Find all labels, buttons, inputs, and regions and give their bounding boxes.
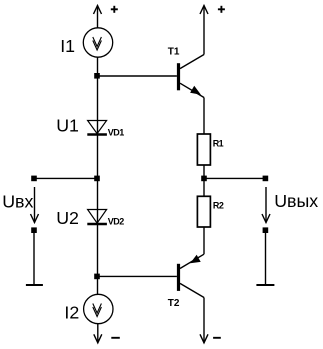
diode VD1 cathode bar	[87, 133, 107, 136]
wire: R1 to node D	[203, 165, 205, 178]
T1 collector diagonal	[180, 55, 204, 69]
transistor T2 base bar	[177, 264, 180, 291]
T2 collector diagonal	[180, 283, 204, 297]
arrowhead down (open) at T2 collector	[200, 334, 208, 343]
arrowhead down (open) input	[31, 214, 39, 223]
label minus (bottom right)	[213, 337, 221, 339]
wire: node A to T1 base	[98, 75, 177, 77]
diode VD2 triangle	[88, 210, 107, 224]
wire: node D to R2	[203, 178, 205, 196]
node A junction dot	[94, 73, 100, 79]
wire: node A down through VD1 to node B	[97, 76, 99, 178]
wire: node B down through VD2 to node C	[97, 178, 99, 276]
T1 emitter diagonal	[180, 83, 204, 97]
node C junction dot	[94, 274, 100, 280]
T1 emitter arrowhead	[191, 87, 200, 94]
T2 emitter diagonal	[180, 254, 204, 268]
label + (top left)	[111, 6, 118, 13]
T2 emitter arrowhead	[191, 256, 200, 263]
wire: node C to T2 base	[98, 275, 177, 277]
wire: T1 collector up to positive rail arrow	[203, 6, 205, 55]
input terminal top dot	[31, 176, 37, 182]
wire: node B to input node	[34, 177, 98, 179]
output terminal end bar	[256, 284, 274, 286]
node B junction dot	[94, 176, 100, 182]
output voltage arrow Uvyx	[265, 187, 267, 223]
svg-text:U1: U1	[56, 116, 79, 136]
wire: T2 collector down to negative rail arrow	[203, 298, 205, 343]
wire: node C to I2 top	[97, 276, 99, 294]
label minus (bottom left)	[111, 337, 120, 339]
wire: T1 emitter down to R1	[203, 98, 205, 135]
resistor R1 body	[197, 134, 210, 165]
svg-text:Uвх: Uвх	[2, 192, 33, 212]
input terminal bottom dot	[31, 227, 37, 233]
svg-text:Uвых: Uвых	[274, 191, 318, 211]
svg-text:VD1: VD1	[108, 127, 125, 137]
I1 double chevron	[93, 37, 102, 47]
svg-text:U2: U2	[56, 208, 79, 228]
arrowhead up (open) at T1 collector	[200, 6, 208, 15]
wire: output lower lead	[265, 230, 267, 285]
wire: R2 down to T2 emitter	[203, 227, 205, 254]
input terminal end bar	[26, 284, 43, 286]
svg-text:T1: T1	[168, 47, 180, 58]
current source I2 circle	[84, 294, 113, 323]
arrowhead down (open) output	[262, 214, 270, 223]
resistor R2 body	[197, 196, 210, 227]
wire: I2 bottom to negative rail arrow	[97, 324, 99, 343]
label + (top right)	[218, 6, 225, 13]
svg-text:T2: T2	[168, 298, 180, 309]
current source I1 circle	[83, 28, 112, 57]
transistor T1 base bar	[177, 63, 180, 90]
input voltage arrow Uvx	[34, 187, 36, 223]
arrowhead down (open) below I2	[94, 334, 102, 343]
diode VD1 triangle	[88, 121, 107, 134]
wire: positive rail arrow above I1	[97, 6, 99, 29]
wire: I1 bottom to node A	[97, 57, 99, 76]
output terminal bottom dot	[263, 227, 269, 233]
wire: node D to output node	[204, 177, 265, 179]
wire: input lower lead	[33, 230, 35, 285]
output terminal top dot	[263, 176, 269, 182]
svg-text:I2: I2	[64, 303, 79, 323]
svg-text:R1: R1	[213, 139, 224, 149]
node D junction dot	[201, 176, 207, 182]
svg-text:R2: R2	[213, 201, 224, 211]
I2 double chevron	[93, 304, 102, 314]
svg-text:VD2: VD2	[108, 217, 125, 227]
arrowhead up (open) at I1 top	[94, 6, 102, 15]
svg-text:I1: I1	[60, 36, 75, 56]
diode VD2 cathode bar	[87, 223, 107, 226]
